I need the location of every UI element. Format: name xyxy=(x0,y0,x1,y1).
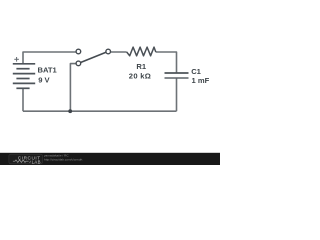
svg-text:BAT1: BAT1 xyxy=(38,65,58,74)
svg-text:20 kΩ: 20 kΩ xyxy=(129,71,151,80)
svg-text:http://circuitlab.com/c/cnsdrt: http://circuitlab.com/c/cnsdrt xyxy=(44,158,82,162)
switch SW1 throw 2 terminal circle xyxy=(76,61,81,66)
wire switch throw 2 down to bottom rail junction xyxy=(70,64,76,112)
logo resistor squiggle xyxy=(13,160,29,163)
switch SW1 throw 1 terminal circle xyxy=(76,49,81,54)
svg-text:1 mF: 1 mF xyxy=(192,76,210,85)
switch SW1 common terminal circle xyxy=(106,49,111,54)
logo arrow mark xyxy=(29,160,31,162)
wire top from battery plus to switch throw 1 xyxy=(23,52,76,64)
svg-text:9 V: 9 V xyxy=(38,75,50,84)
switch SW1 lever xyxy=(78,51,108,63)
CircuitLab logo badge xyxy=(9,154,43,164)
battery BAT1 plus sign xyxy=(14,57,19,62)
capacitor C1 plates xyxy=(165,72,189,74)
wire from resistor R1 right to capacitor C1 top xyxy=(156,52,177,73)
battery BAT1 plates xyxy=(13,64,35,89)
watermark bar xyxy=(0,153,220,165)
junction dot at bottom rail xyxy=(68,109,72,113)
resistor R1 zigzag xyxy=(127,47,156,56)
wire bottom rail xyxy=(23,110,177,112)
svg-text:R1: R1 xyxy=(136,62,146,71)
wire from capacitor C1 bottom to bottom rail xyxy=(176,78,178,111)
wire from switch common to resistor R1 left xyxy=(111,51,127,53)
wire battery minus to bottom rail xyxy=(22,88,24,111)
svg-text:LAB: LAB xyxy=(32,159,41,164)
